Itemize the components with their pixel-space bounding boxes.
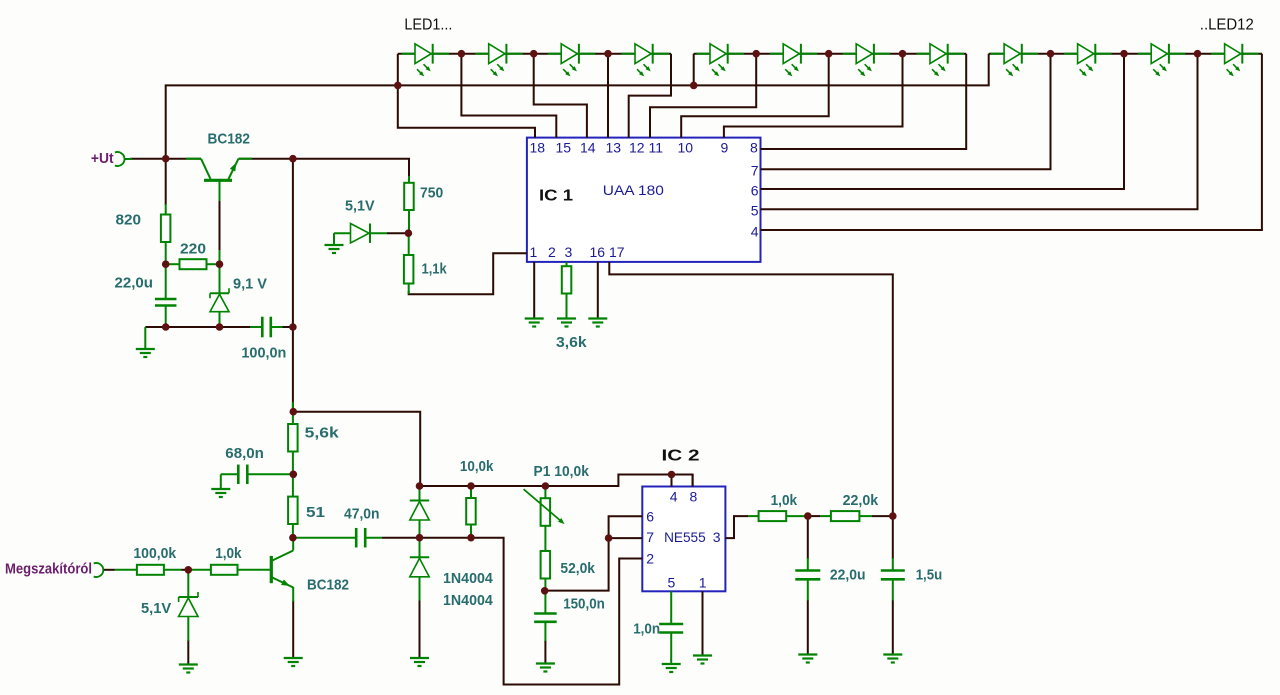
svg-text:7: 7 (646, 529, 654, 545)
svg-text:3: 3 (713, 529, 721, 545)
svg-text:1N4004: 1N4004 (443, 592, 493, 609)
svg-text:5,1V: 5,1V (345, 198, 375, 215)
svg-text:9,1 V: 9,1 V (233, 276, 267, 293)
svg-text:1,1k: 1,1k (422, 261, 448, 278)
svg-text:1,0k: 1,0k (215, 545, 242, 562)
svg-text:820: 820 (116, 212, 142, 229)
svg-text:10,0k: 10,0k (460, 458, 494, 475)
svg-text:LED1...: LED1... (404, 17, 452, 34)
svg-text:47,0n: 47,0n (344, 505, 380, 522)
svg-text:750: 750 (420, 185, 443, 202)
svg-text:7: 7 (751, 163, 759, 179)
svg-text:6: 6 (751, 182, 759, 198)
svg-text:3: 3 (565, 244, 573, 260)
svg-text:IC 1: IC 1 (539, 188, 573, 205)
svg-text:22,0u: 22,0u (115, 275, 154, 292)
svg-text:68,0n: 68,0n (225, 445, 264, 462)
svg-text:BC182: BC182 (307, 577, 349, 594)
svg-text:150,0n: 150,0n (563, 596, 605, 613)
svg-text:..LED12: ..LED12 (1200, 17, 1254, 34)
svg-text:1: 1 (530, 244, 538, 260)
svg-text:8: 8 (690, 489, 698, 505)
svg-text:P1 10,0k: P1 10,0k (534, 463, 590, 480)
svg-text:10: 10 (678, 140, 694, 156)
svg-text:+Ut: +Ut (91, 150, 114, 167)
svg-text:9: 9 (721, 140, 729, 156)
svg-text:4: 4 (670, 489, 678, 505)
svg-text:Megszakítóról: Megszakítóról (5, 561, 92, 578)
svg-text:22,0k: 22,0k (843, 492, 879, 509)
svg-text:100,0k: 100,0k (133, 545, 176, 562)
svg-text:1: 1 (699, 575, 707, 591)
svg-text:BC182: BC182 (208, 131, 251, 148)
svg-text:220: 220 (180, 241, 206, 258)
svg-text:1,5u: 1,5u (916, 567, 943, 584)
svg-text:52,0k: 52,0k (560, 560, 595, 577)
svg-text:51: 51 (306, 504, 325, 521)
svg-text:22,0u: 22,0u (830, 567, 866, 584)
svg-text:6: 6 (646, 509, 654, 525)
svg-text:1N4004: 1N4004 (443, 570, 493, 587)
svg-text:NE555: NE555 (664, 529, 706, 545)
svg-text:2: 2 (646, 551, 654, 567)
svg-text:UAA 180: UAA 180 (603, 182, 664, 198)
svg-text:1,0n: 1,0n (633, 621, 660, 638)
svg-text:1,0k: 1,0k (771, 492, 798, 509)
svg-text:5: 5 (751, 203, 759, 219)
svg-text:5,6k: 5,6k (305, 425, 340, 442)
svg-text:17: 17 (609, 244, 625, 260)
svg-text:13: 13 (606, 140, 622, 156)
svg-text:5: 5 (668, 575, 676, 591)
svg-text:100,0n: 100,0n (241, 345, 286, 362)
svg-text:5,1V: 5,1V (141, 600, 171, 617)
svg-text:15: 15 (556, 140, 572, 156)
svg-text:2: 2 (548, 244, 556, 260)
svg-text:14: 14 (580, 140, 596, 156)
svg-text:18: 18 (530, 140, 546, 156)
svg-text:16: 16 (590, 244, 606, 260)
svg-text:11: 11 (649, 140, 664, 156)
svg-text:IC 2: IC 2 (662, 448, 700, 465)
svg-text:8: 8 (750, 140, 758, 156)
svg-text:3,6k: 3,6k (556, 334, 587, 351)
svg-text:4: 4 (751, 223, 759, 239)
svg-text:12: 12 (629, 140, 645, 156)
